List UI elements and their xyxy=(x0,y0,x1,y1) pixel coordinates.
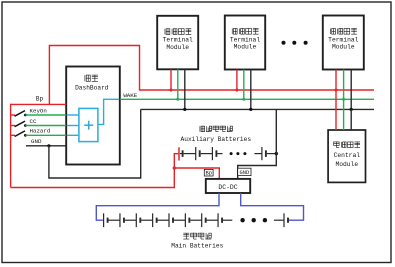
main ellipsis dots xyxy=(240,218,244,222)
terminal module U2 xyxy=(225,16,265,70)
DC-DC converter U5 xyxy=(206,179,250,193)
wire red bottom run xyxy=(11,154,179,188)
svg-text:GND: GND xyxy=(240,170,250,176)
junction red xyxy=(173,166,176,169)
terminal module U3 xyxy=(323,16,364,70)
svg-text:WAKE: WAKE xyxy=(123,92,137,99)
svg-text:GND: GND xyxy=(31,138,42,145)
svg-text:Auxiliary Batteries: Auxiliary Batteries xyxy=(181,136,252,143)
module U2 pins (red/green/black) xyxy=(236,70,238,91)
wire DC-DC out left (blue) xyxy=(96,193,219,220)
svg-text:DC-DC: DC-DC xyxy=(218,184,237,191)
svg-text:Bp: Bp xyxy=(36,96,44,103)
svg-text:DashBoard: DashBoard xyxy=(75,85,109,92)
label main (CJK) xyxy=(183,233,189,239)
svg-text:Module: Module xyxy=(332,44,355,51)
svg-text:Terminal: Terminal xyxy=(328,36,358,43)
wire Hazard stub (blue) xyxy=(67,134,79,136)
ellipsis dots (more terminal modules) xyxy=(282,41,286,45)
svg-text:Central: Central xyxy=(334,152,361,159)
svg-text:Module: Module xyxy=(335,161,358,168)
wire CC stub (blue) xyxy=(67,125,79,127)
wire DC-DC out right (blue) xyxy=(241,193,304,220)
net WAKE (green bus) xyxy=(120,98,374,100)
dashboard (instrument cluster) xyxy=(66,67,120,165)
svg-text:Module: Module xyxy=(166,44,189,51)
main battery last cell xyxy=(274,219,284,221)
label aux (CJK) xyxy=(200,126,205,132)
central module feed wires xyxy=(335,90,337,130)
wire aux negative (black) xyxy=(238,109,277,178)
net Bp (red bus) xyxy=(140,89,375,91)
switch Hazard + wire xyxy=(11,134,15,136)
wire red branch to DC-DC Bp xyxy=(174,168,219,179)
label box Bp xyxy=(204,169,213,176)
wire Bp input (red) xyxy=(11,103,67,105)
central module xyxy=(328,130,365,182)
aux ellipsis dots xyxy=(230,152,233,155)
aux battery + terminal (red) xyxy=(178,147,180,160)
svg-text:Terminal: Terminal xyxy=(230,36,260,43)
wire GND input + junction xyxy=(26,145,66,147)
wire Bp riser over top (red) xyxy=(49,46,139,105)
svg-text:Hazard: Hazard xyxy=(30,128,51,135)
svg-text:Module: Module xyxy=(234,44,257,51)
wire WAKE out (blue) xyxy=(98,99,119,124)
module U1 pins (red/green/black) xyxy=(170,69,172,90)
svg-text:Main Batteries: Main Batteries xyxy=(171,242,223,249)
net GND (black bus) xyxy=(141,108,374,110)
op-amp/summer U+ (blue plus box) xyxy=(79,108,98,141)
svg-text:CC: CC xyxy=(30,118,37,125)
red left bus xyxy=(10,104,12,188)
wire KeyOn stub (blue) xyxy=(67,114,79,116)
svg-text:Terminal: Terminal xyxy=(163,37,193,44)
wire GND loop (black) xyxy=(49,109,141,178)
svg-text:Bp: Bp xyxy=(205,171,211,177)
aux battery B4 + junction xyxy=(254,153,262,155)
terminal module U1 xyxy=(157,16,198,70)
label box GND xyxy=(238,168,251,175)
svg-text:KeyOn: KeyOn xyxy=(30,107,47,114)
aux batteries B1-B3 xyxy=(180,153,183,155)
main batteries B5 chain xyxy=(103,213,105,227)
switch KeyOn + wire xyxy=(11,114,15,116)
module U3 pins (red/green/black) xyxy=(335,70,337,91)
switch CC + wire xyxy=(11,125,15,127)
